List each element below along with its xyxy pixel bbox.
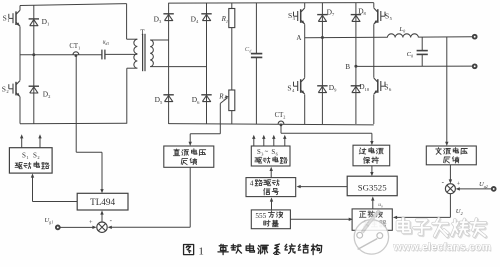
wire: CT1 to TL494 — [75, 56, 77, 152]
block: S3~S6 drive circuit box — [251, 146, 290, 166]
wire: left DC top rail — [20, 4, 127, 6]
svg-text:SG3525: SG3525 — [358, 183, 387, 193]
block: S1 S2 drive circuit box — [9, 148, 52, 173]
svg-text:S: S — [22, 151, 26, 159]
transformer T secondary winding — [150, 40, 153, 67]
reference input Ug1 — [56, 226, 60, 230]
svg-text:S: S — [288, 11, 292, 20]
wire: summing right to sine generator — [449, 194, 451, 218]
R2 wiper arrow — [220, 98, 227, 104]
diode D1 — [29, 18, 39, 20]
svg-text:TL494: TL494 — [90, 197, 115, 207]
inductor L0 — [387, 34, 418, 38]
block: 555 square wave timebase box — [251, 210, 290, 229]
block: 4-way drive signal box — [246, 178, 296, 197]
wire: rectifier top rail — [169, 2, 374, 5]
svg-text:S: S — [3, 14, 7, 23]
transistor S1 — [15, 11, 17, 25]
capacitor ud1 — [101, 50, 103, 60]
wire: A output line — [418, 36, 472, 38]
diode D6 — [201, 94, 211, 96]
wire: cap to transformer primary center — [105, 53, 137, 55]
wire: rectifier/inverter bottom rail — [169, 124, 374, 125]
wire: CT2 to overcurrent box — [280, 125, 282, 133]
svg-text:S: S — [384, 82, 388, 91]
resistor R1 — [231, 3, 233, 9]
svg-text:S: S — [33, 151, 37, 159]
svg-text:B: B — [345, 63, 350, 71]
wire: R2 wiper to DC feedback box — [219, 103, 221, 133]
junction dot mid-leg — [32, 53, 35, 56]
transistor S2 — [15, 82, 17, 96]
watermark: elecfans chinese text — [397, 218, 486, 237]
svg-text:4: 4 — [250, 179, 254, 188]
wire: D1-D2 leg — [33, 5, 35, 124]
wire: TL494 to S1S2 drive — [33, 201, 78, 203]
summing junction left — [97, 222, 107, 232]
watermark: elecfans logo circle — [354, 210, 388, 254]
transformer T core — [142, 34, 144, 71]
block: SG3525 box — [347, 176, 397, 196]
svg-text:S: S — [385, 11, 389, 20]
wire: SG3525 to 4-way drive — [300, 186, 347, 188]
diode D8 — [351, 14, 361, 16]
wire: AC feedback tap — [446, 37, 448, 142]
block: sine wave generator box — [352, 209, 392, 230]
caption: figure title — [184, 245, 194, 255]
output terminal bottom — [473, 64, 477, 68]
node A wire — [305, 36, 388, 39]
arrows: S3~S6 drive outputs — [253, 138, 255, 146]
diode D10 — [351, 85, 361, 87]
svg-text:~: ~ — [265, 149, 269, 156]
node: S1/S2 midpoint wire — [20, 54, 102, 56]
summing junction right — [445, 184, 455, 194]
diode D4 — [201, 13, 211, 15]
svg-text:3: 3 — [261, 152, 263, 157]
arrows: S1S2 drive outputs — [21, 138, 23, 148]
block: AC voltage feedback box — [426, 146, 476, 165]
output terminal top — [473, 35, 477, 39]
wire: secondary bottom lead — [150, 66, 206, 68]
current transformer CT2 — [278, 121, 284, 124]
node B wire — [356, 65, 473, 67]
svg-text:+: + — [457, 181, 461, 188]
wire: S1-S2 leg verticals — [19, 6, 21, 11]
wire: AC feedback to summing right — [449, 165, 451, 181]
wire: sine generator to SG3525 — [372, 200, 374, 209]
svg-text:+: + — [89, 219, 93, 226]
transistor S5 — [377, 9, 379, 23]
wire: summing to TL494 — [101, 214, 103, 222]
capacitor Cd — [255, 3, 257, 53]
wire: 555 to 4-way drive — [271, 201, 273, 210]
diode D7 — [317, 14, 327, 16]
wire: D4/D6 leg — [206, 3, 208, 124]
wire: secondary top lead — [150, 39, 168, 41]
wire: 555 to sine generator — [290, 218, 349, 220]
wire: overcurrent to SG3525 — [371, 166, 373, 173]
resistor R2 (pot) — [229, 90, 235, 111]
diode D2 — [29, 85, 39, 87]
wire: DC feedback to summing node — [189, 167, 191, 227]
wire: primary bottom return to bottom rail — [126, 68, 128, 123]
junction dot node A — [321, 36, 324, 39]
current transformer CT1 — [73, 52, 79, 55]
wire: left DC bottom rail — [20, 122, 127, 125]
reference input Ug2 — [492, 187, 496, 191]
transistor S4 — [300, 79, 302, 93]
wire: D7/D9 leg — [321, 3, 323, 124]
svg-text:2: 2 — [37, 155, 39, 160]
transformer T primary winding — [134, 39, 137, 68]
svg-text:1: 1 — [26, 155, 28, 160]
diode D9 — [317, 85, 327, 87]
block: DC voltage feedback box — [164, 146, 214, 167]
capacitor C0 — [421, 37, 423, 50]
diode D5 — [163, 94, 173, 96]
wire: primary top return to top rail — [126, 4, 128, 40]
block: overcurrent protection box — [353, 145, 390, 166]
diode D3 — [163, 13, 173, 15]
svg-text:A: A — [296, 34, 301, 42]
svg-text:T: T — [140, 29, 145, 37]
wire: S5/S6 leg — [373, 3, 375, 8]
transistor S6 — [377, 79, 379, 93]
svg-text:www.elecfans.com: www.elecfans.com — [393, 242, 492, 254]
wire: D8/D10 leg — [355, 3, 357, 124]
block: TL494 box — [77, 193, 128, 210]
wire: 4-way drive to S3~S6 box — [270, 170, 272, 177]
svg-text:1: 1 — [198, 246, 204, 258]
svg-text:555: 555 — [255, 212, 266, 220]
svg-text:S: S — [2, 84, 6, 93]
wire: S3/S4 leg — [304, 3, 306, 8]
svg-text:S: S — [287, 83, 291, 92]
wire: D3/D5 leg — [168, 3, 170, 124]
transistor S3 — [300, 9, 302, 23]
junction dot node B — [354, 65, 357, 68]
